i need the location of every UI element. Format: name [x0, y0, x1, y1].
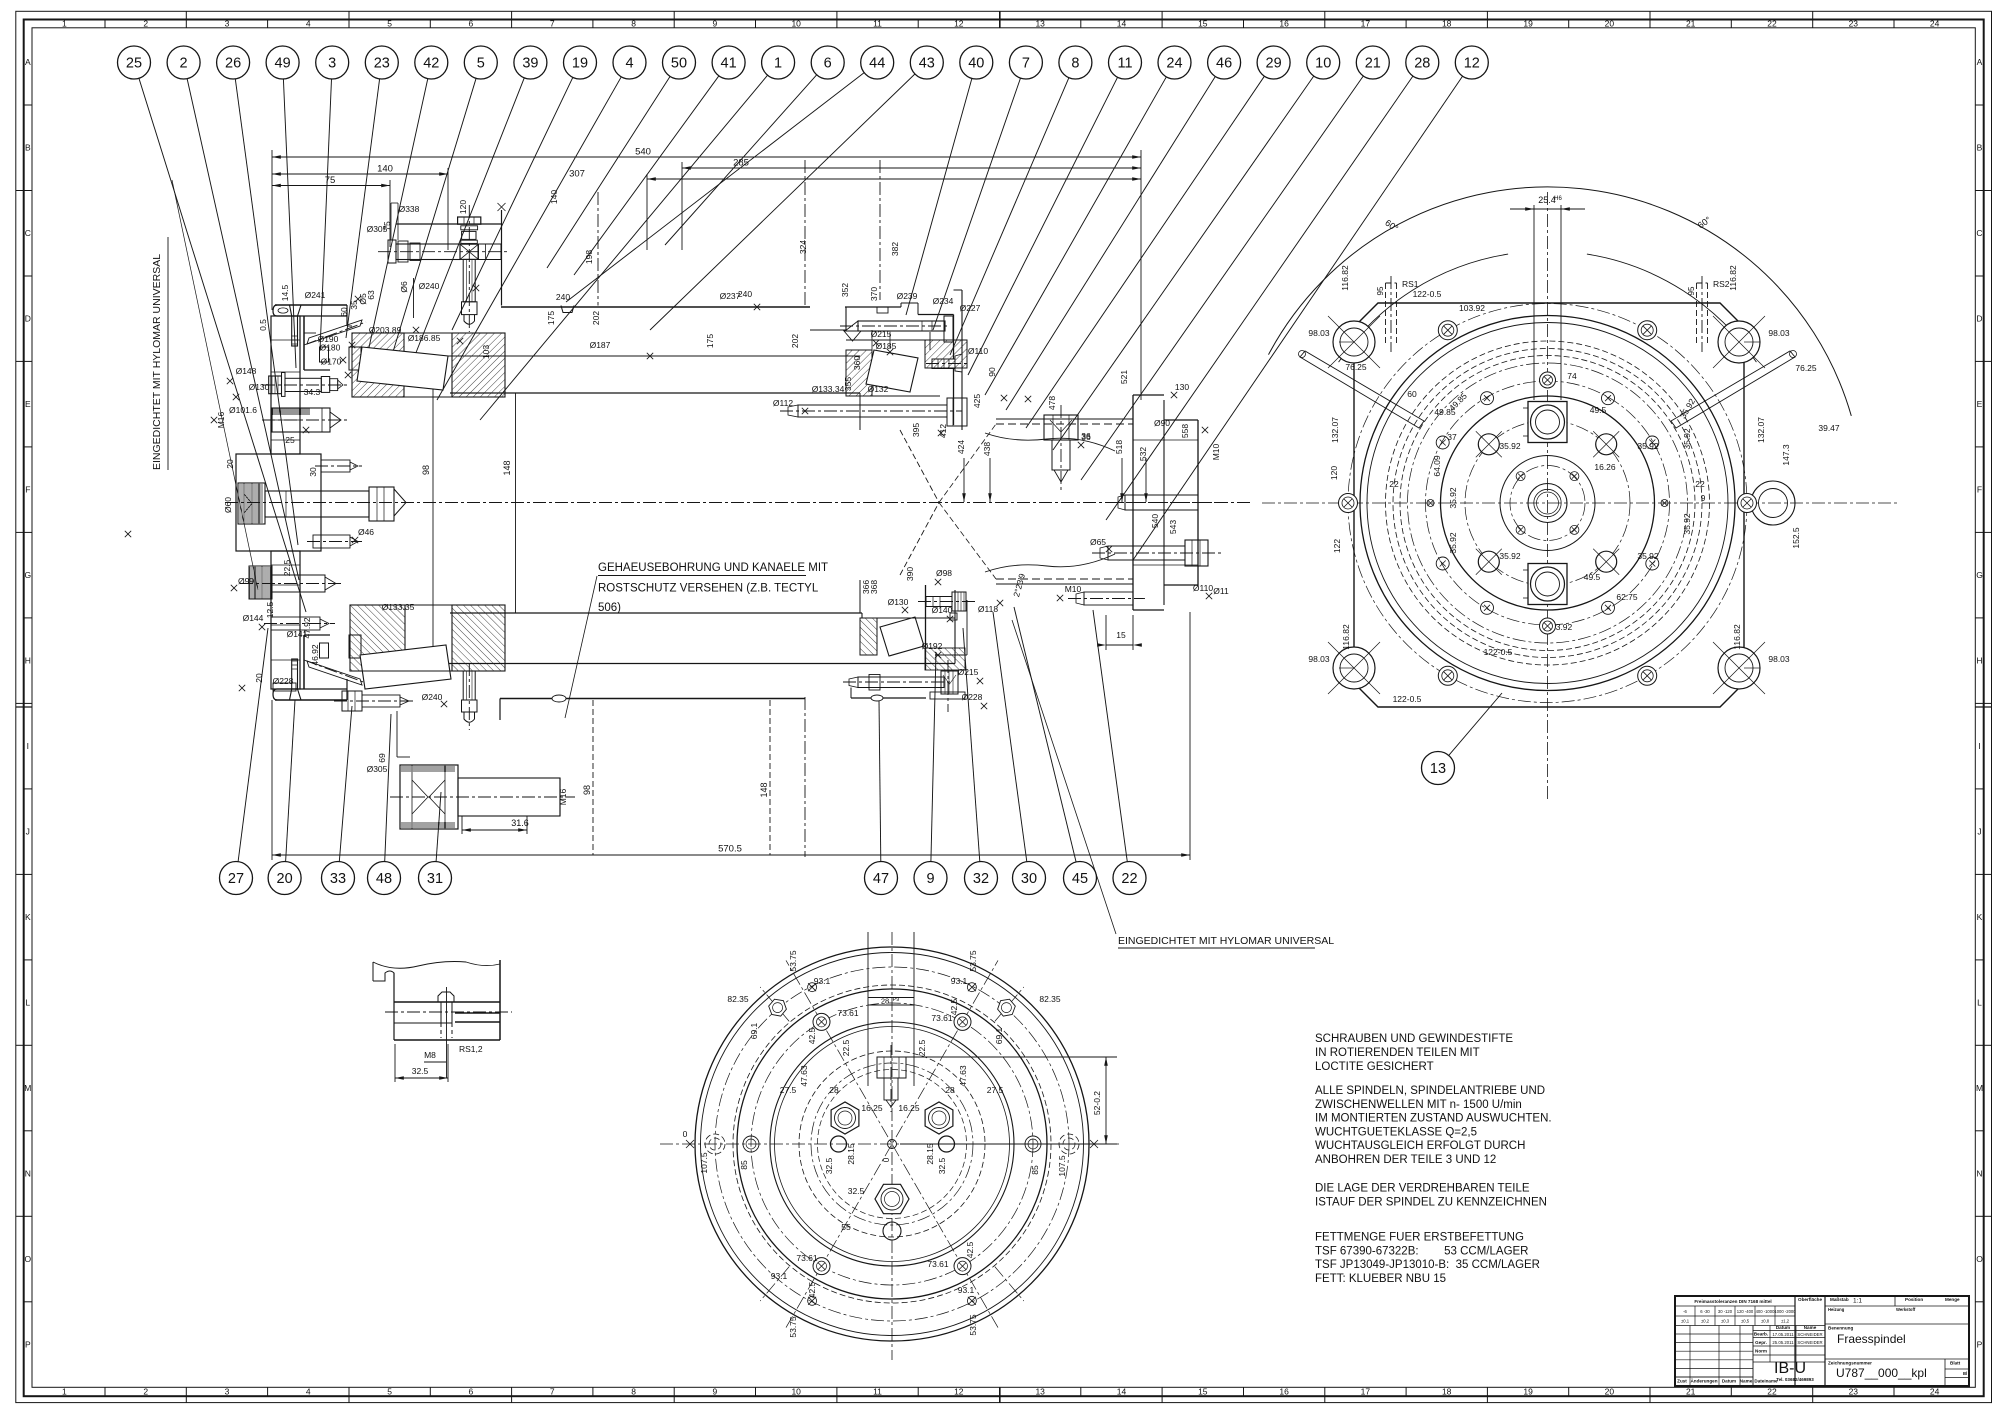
svg-text:RS1,2: RS1,2 [459, 1044, 483, 1054]
svg-text:93.1: 93.1 [951, 976, 968, 986]
svg-text:Ø240: Ø240 [422, 692, 443, 702]
svg-text:A: A [1977, 57, 1983, 67]
svg-text:98.03: 98.03 [1308, 654, 1330, 664]
svg-text:Ø99: Ø99 [238, 576, 254, 586]
svg-text:O: O [1976, 1254, 1983, 1264]
svg-text:±0,1: ±0,1 [1681, 1319, 1690, 1324]
svg-text:35.92: 35.92 [1637, 441, 1659, 451]
svg-text:37: 37 [1447, 432, 1457, 442]
svg-text:Blatt: Blatt [1950, 1361, 1961, 1366]
svg-text:307: 307 [569, 169, 585, 180]
svg-text:4: 4 [625, 56, 633, 72]
svg-text:EINGEDICHTET MIT HYLOMAR UNIVE: EINGEDICHTET MIT HYLOMAR UNIVERSAL [151, 254, 163, 470]
svg-text:Ø90: Ø90 [1154, 418, 1170, 428]
svg-text:Name: Name [1804, 1325, 1817, 1330]
svg-text:10: 10 [791, 1387, 801, 1397]
svg-text:140: 140 [377, 164, 393, 175]
svg-text:±0,3: ±0,3 [1721, 1319, 1730, 1324]
svg-text:12.5: 12.5 [265, 601, 275, 618]
svg-text:46.92: 46.92 [310, 644, 320, 666]
svg-text:ROSTSCHUTZ VERSEHEN (Z.B. TECT: ROSTSCHUTZ VERSEHEN (Z.B. TECTYL [598, 583, 819, 595]
svg-text:Tel. 03682/469893: Tel. 03682/469893 [1776, 1377, 1814, 1382]
svg-text:28.15: 28.15 [925, 1143, 935, 1165]
svg-text:76.25: 76.25 [1345, 362, 1367, 372]
svg-text:ALLE SPINDELN, SPINDELANTRIEBE: ALLE SPINDELN, SPINDELANTRIEBE UND [1315, 1085, 1545, 1097]
svg-text:Ø130: Ø130 [249, 382, 270, 392]
svg-text:355: 355 [843, 377, 853, 391]
svg-text:Ø118: Ø118 [978, 604, 998, 614]
svg-text:20: 20 [277, 871, 293, 887]
svg-text:69.1: 69.1 [994, 1027, 1004, 1044]
svg-text:540: 540 [1150, 514, 1160, 528]
svg-text:17: 17 [1361, 18, 1371, 28]
svg-text:122: 122 [1332, 539, 1342, 553]
svg-text:140: 140 [549, 190, 559, 204]
svg-text:35.92: 35.92 [1499, 551, 1521, 561]
svg-text:558: 558 [1180, 424, 1190, 438]
svg-text:22: 22 [1767, 18, 1777, 28]
svg-text:GEHAEUSEBOHRUNG UND KANAELE MI: GEHAEUSEBOHRUNG UND KANAELE MIT [598, 562, 828, 574]
svg-text:93.1: 93.1 [958, 1285, 975, 1295]
svg-text:120 -400: 120 -400 [1737, 1309, 1754, 1314]
svg-text:EINGEDICHTET MIT HYLOMAR UNIVE: EINGEDICHTET MIT HYLOMAR UNIVERSAL [1118, 935, 1334, 947]
svg-text:Ø305: Ø305 [367, 764, 388, 774]
svg-text:122-0.5: 122-0.5 [1413, 289, 1442, 299]
svg-text:Ø133.34: Ø133.34 [812, 384, 845, 394]
svg-text:27: 27 [228, 871, 244, 887]
svg-text:103: 103 [481, 345, 491, 359]
svg-text:5: 5 [477, 56, 485, 72]
svg-text:60: 60 [339, 307, 349, 317]
svg-text:53.75: 53.75 [788, 950, 798, 972]
svg-text:132.07: 132.07 [1330, 417, 1340, 443]
svg-text:Bl: Bl [1963, 1371, 1967, 1376]
svg-text:85: 85 [1030, 1165, 1040, 1175]
svg-text:76.25: 76.25 [1795, 363, 1817, 373]
svg-text:-6: -6 [1683, 1309, 1687, 1314]
svg-text:24: 24 [1930, 18, 1940, 28]
svg-text:40: 40 [968, 56, 984, 72]
svg-text:WUCHTGUETEKLASSE Q=2,5: WUCHTGUETEKLASSE Q=2,5 [1315, 1126, 1477, 1138]
svg-text:L: L [25, 998, 30, 1008]
svg-text:28: 28 [1414, 56, 1430, 72]
svg-text:16: 16 [1279, 18, 1289, 28]
svg-text:DIE LAGE DER VERDREHBAREN TEIL: DIE LAGE DER VERDREHBAREN TEILE [1315, 1183, 1530, 1195]
svg-text:45: 45 [1072, 871, 1088, 887]
svg-text:35.92: 35.92 [1448, 532, 1458, 554]
svg-text:Ø228: Ø228 [962, 692, 983, 702]
svg-text:ZWISCHENWELLEN MIT n- 1500 U/m: ZWISCHENWELLEN MIT n- 1500 U/min [1315, 1099, 1522, 1111]
svg-text:98: 98 [421, 465, 431, 475]
svg-text:46: 46 [1216, 56, 1232, 72]
svg-text:Ø110: Ø110 [1193, 583, 1213, 593]
svg-text:11: 11 [1117, 56, 1132, 72]
svg-text:Ø228: Ø228 [273, 676, 294, 686]
svg-text:49.5: 49.5 [1584, 572, 1601, 582]
svg-text:9: 9 [713, 1387, 718, 1397]
svg-text:Ø11: Ø11 [1213, 586, 1229, 596]
svg-text:73.61: 73.61 [796, 1253, 818, 1263]
svg-text:49: 49 [275, 56, 291, 72]
svg-text:Ø65: Ø65 [1090, 537, 1106, 547]
svg-text:42: 42 [423, 56, 439, 72]
svg-text:4: 4 [306, 1387, 311, 1397]
svg-text:Maßstab: Maßstab [1830, 1297, 1849, 1302]
svg-text:M: M [24, 1083, 31, 1093]
svg-text:23: 23 [374, 56, 390, 72]
svg-text:12: 12 [954, 18, 964, 28]
svg-text:240: 240 [556, 292, 570, 302]
svg-text:424: 424 [956, 440, 966, 454]
svg-text:3: 3 [225, 18, 230, 28]
svg-text:32.5: 32.5 [412, 1066, 429, 1076]
svg-text:18: 18 [1442, 18, 1452, 28]
svg-text:42.5: 42.5 [807, 1281, 817, 1298]
svg-text:69: 69 [377, 753, 387, 763]
svg-text:20: 20 [1605, 1387, 1615, 1397]
svg-text:24: 24 [1930, 1387, 1940, 1397]
svg-text:9: 9 [926, 871, 934, 887]
svg-text:N: N [1976, 1169, 1982, 1179]
svg-text:198: 198 [584, 250, 594, 264]
svg-text:Ø227: Ø227 [960, 303, 981, 313]
svg-text:63: 63 [366, 290, 376, 300]
svg-text:47.63: 47.63 [799, 1065, 809, 1087]
svg-text:C: C [1976, 228, 1982, 238]
svg-text:Ø112: Ø112 [773, 398, 793, 408]
svg-text:H6: H6 [1554, 196, 1562, 202]
svg-text:IM MONTIERTEN ZUSTAND AUSWUCHT: IM MONTIERTEN ZUSTAND AUSWUCHTEN. [1315, 1113, 1552, 1125]
svg-text:62.75: 62.75 [1616, 592, 1638, 602]
svg-text:22.5: 22.5 [841, 1039, 851, 1056]
svg-text:J: J [1977, 827, 1981, 837]
svg-text:E: E [25, 399, 31, 409]
svg-text:98.03: 98.03 [1768, 654, 1790, 664]
svg-text:WUCHTAUSGLEICH ERFOLGT DURCH: WUCHTAUSGLEICH ERFOLGT DURCH [1315, 1140, 1525, 1152]
svg-text:25: 25 [285, 435, 295, 445]
svg-text:M10: M10 [1065, 584, 1082, 594]
svg-text:4: 4 [306, 18, 311, 28]
svg-text:Ø234: Ø234 [933, 296, 954, 306]
svg-text:Ø6: Ø6 [399, 281, 409, 293]
svg-text:47: 47 [873, 871, 889, 887]
svg-text:122-0.5: 122-0.5 [1393, 694, 1422, 704]
svg-text:395: 395 [911, 423, 921, 437]
svg-text:7: 7 [550, 18, 555, 28]
svg-text:22.5: 22.5 [282, 559, 292, 576]
svg-text:34.3: 34.3 [304, 387, 321, 397]
svg-text:Ø130: Ø130 [888, 597, 909, 607]
svg-text:±0,2: ±0,2 [1701, 1319, 1710, 1324]
svg-text:N: N [25, 1169, 31, 1179]
svg-text:L: L [1977, 998, 1982, 1008]
svg-text:202: 202 [790, 334, 800, 348]
svg-text:27.5: 27.5 [987, 1085, 1004, 1095]
svg-text:IB-U: IB-U [1774, 1360, 1806, 1377]
svg-text:F: F [25, 485, 30, 495]
svg-text:G: G [24, 570, 31, 580]
svg-text:P: P [1977, 1340, 1983, 1350]
svg-text:50: 50 [671, 56, 687, 72]
svg-text:48: 48 [376, 871, 392, 887]
svg-text:9: 9 [713, 18, 718, 28]
svg-text:1: 1 [774, 56, 782, 72]
svg-text:39: 39 [522, 56, 538, 72]
svg-text:Werkstoff: Werkstoff [1896, 1307, 1916, 1312]
svg-text:Ø203.89: Ø203.89 [369, 325, 402, 335]
svg-text:506): 506) [598, 602, 621, 614]
svg-text:D: D [25, 314, 31, 324]
svg-text:74: 74 [1567, 371, 1577, 381]
svg-text:532: 532 [1138, 447, 1148, 461]
svg-text:22: 22 [1389, 479, 1399, 489]
svg-text:G: G [1976, 570, 1983, 580]
svg-text:TSF JP13049-JP13010-B: 35 CCM: TSF JP13049-JP13010-B: 35 CCM/LAGER [1315, 1259, 1540, 1271]
svg-text:120: 120 [1329, 466, 1339, 480]
svg-text:85: 85 [739, 1160, 749, 1170]
svg-text:6: 6 [824, 56, 832, 72]
svg-text:14: 14 [1117, 18, 1127, 28]
svg-text:53.75: 53.75 [788, 1316, 798, 1338]
svg-text:Oberfläche: Oberfläche [1798, 1297, 1822, 1302]
svg-text:42.5: 42.5 [949, 998, 959, 1015]
svg-text:14: 14 [1117, 1387, 1127, 1397]
svg-text:116.82: 116.82 [1732, 624, 1742, 650]
svg-text:25.05.2011: 25.05.2011 [1772, 1340, 1794, 1345]
svg-text:22: 22 [1121, 871, 1137, 887]
svg-text:Datum: Datum [1722, 1379, 1736, 1384]
svg-text:21: 21 [1365, 56, 1381, 72]
svg-text:202: 202 [591, 311, 601, 325]
svg-text:41: 41 [721, 56, 737, 72]
svg-text:35.92: 35.92 [1637, 551, 1659, 561]
svg-text:SCHNEIDER: SCHNEIDER [1797, 1332, 1822, 1337]
svg-text:130: 130 [1175, 382, 1189, 392]
svg-text:1000 -2000: 1000 -2000 [1774, 1309, 1796, 1314]
svg-text:Norm: Norm [1755, 1349, 1767, 1354]
svg-text:52-0.2: 52-0.2 [1092, 1091, 1102, 1115]
svg-text:FETT: KLUEBER NBU 15: FETT: KLUEBER NBU 15 [1315, 1273, 1446, 1285]
svg-text:Ø239: Ø239 [897, 291, 918, 301]
svg-text:35.92: 35.92 [1682, 428, 1692, 450]
svg-text:Ø338: Ø338 [399, 204, 420, 214]
svg-text:39.47: 39.47 [1818, 423, 1840, 433]
svg-text:Ø148: Ø148 [236, 366, 257, 376]
svg-text:Gepr.: Gepr. [1755, 1340, 1767, 1345]
svg-text:93.1: 93.1 [814, 976, 831, 986]
svg-text:Ø240: Ø240 [419, 281, 440, 291]
svg-text:98.03: 98.03 [1768, 328, 1790, 338]
svg-text:Ø46: Ø46 [358, 527, 374, 537]
svg-text:11: 11 [873, 18, 882, 28]
svg-text:1: 1 [62, 1387, 67, 1397]
svg-text:Ø133.35: Ø133.35 [382, 602, 415, 612]
svg-text:0.5: 0.5 [258, 319, 268, 331]
svg-text:98.03: 98.03 [1308, 328, 1330, 338]
svg-text:32.5: 32.5 [937, 1157, 947, 1174]
svg-text:285: 285 [733, 158, 749, 169]
svg-text:Ø98: Ø98 [936, 568, 952, 578]
svg-text:32: 32 [973, 871, 989, 887]
svg-text:20: 20 [1605, 18, 1615, 28]
svg-text:28.15: 28.15 [846, 1143, 856, 1165]
svg-text:M16: M16 [558, 788, 568, 805]
svg-text:28: 28 [881, 997, 889, 1006]
svg-text:32.5: 32.5 [824, 1157, 834, 1174]
svg-text:10: 10 [1315, 56, 1331, 72]
svg-text:Ø144: Ø144 [243, 613, 264, 623]
svg-text:M8: M8 [424, 1050, 436, 1060]
svg-text:6: 6 [469, 1387, 474, 1397]
svg-text:O: O [24, 1254, 31, 1264]
svg-text:Änderungen: Änderungen [1690, 1378, 1717, 1384]
svg-text:H: H [1976, 656, 1982, 666]
svg-text:Ø141: Ø141 [287, 629, 308, 639]
svg-text:73.61: 73.61 [837, 1008, 859, 1018]
svg-text:107.5: 107.5 [1057, 1155, 1067, 1177]
svg-text:28: 28 [829, 1085, 839, 1095]
svg-text:35.92: 35.92 [1682, 513, 1692, 535]
svg-text:19: 19 [1523, 1387, 1533, 1397]
svg-text:SCHRAUBEN UND GEWINDESTIFTE: SCHRAUBEN UND GEWINDESTIFTE [1315, 1033, 1513, 1045]
svg-text:390: 390 [905, 567, 915, 581]
svg-text:22: 22 [1767, 1387, 1777, 1397]
svg-text:Ø241: Ø241 [305, 290, 326, 300]
svg-text:12: 12 [954, 1387, 964, 1397]
svg-text:Ø170: Ø170 [321, 357, 342, 367]
svg-text:95: 95 [1687, 286, 1696, 295]
svg-text:Freimasstoleranzen DIN 7168 mi: Freimasstoleranzen DIN 7168 mittel [1694, 1299, 1771, 1304]
svg-text:0: 0 [881, 1157, 891, 1162]
svg-text:175: 175 [705, 334, 715, 348]
svg-text:32.5: 32.5 [848, 1186, 865, 1196]
svg-text:23: 23 [1849, 18, 1859, 28]
svg-text:Ø180: Ø180 [320, 343, 341, 353]
svg-text:240: 240 [738, 289, 752, 299]
svg-text:152.5: 152.5 [1791, 527, 1801, 549]
svg-text:±0,5: ±0,5 [1741, 1319, 1750, 1324]
svg-text:60: 60 [1407, 389, 1417, 399]
svg-text:5: 5 [387, 1387, 392, 1397]
svg-text:A: A [25, 57, 31, 67]
svg-text:ANBOHREN DER TEILE 3 UND 12: ANBOHREN DER TEILE 3 UND 12 [1315, 1154, 1496, 1166]
svg-text:3: 3 [328, 56, 336, 72]
svg-text:20: 20 [254, 673, 264, 683]
svg-text:438: 438 [982, 442, 992, 456]
svg-text:1:1: 1:1 [1853, 1298, 1862, 1305]
svg-text:12: 12 [1464, 56, 1480, 72]
svg-text:15: 15 [1198, 18, 1208, 28]
svg-text:49.5: 49.5 [1590, 405, 1607, 415]
svg-text:543: 543 [1168, 520, 1178, 534]
svg-text:24: 24 [1166, 56, 1182, 72]
svg-text:42.5: 42.5 [965, 1241, 975, 1258]
svg-text:148: 148 [759, 782, 769, 797]
svg-text:Fraesspindel: Fraesspindel [1837, 1332, 1906, 1346]
svg-text:20: 20 [225, 459, 235, 469]
svg-text:55: 55 [841, 1222, 851, 1232]
svg-text:C: C [25, 228, 31, 238]
svg-text:P: P [25, 1340, 31, 1350]
svg-text:13: 13 [1035, 18, 1045, 28]
svg-text:26: 26 [225, 56, 241, 72]
svg-text:Heizung: Heizung [1828, 1307, 1845, 1312]
svg-text:13: 13 [1035, 1387, 1045, 1397]
svg-text:6: 6 [469, 18, 474, 28]
svg-text:30 -120: 30 -120 [1718, 1309, 1733, 1314]
svg-text:B: B [1977, 143, 1983, 153]
svg-text:Position: Position [1905, 1297, 1923, 1302]
svg-text:22: 22 [1695, 479, 1705, 489]
svg-text:103.92: 103.92 [1459, 303, 1485, 313]
svg-text:43: 43 [919, 56, 935, 72]
svg-text:521: 521 [1119, 370, 1129, 384]
svg-text:21: 21 [1686, 1387, 1696, 1397]
svg-text:D: D [1976, 314, 1982, 324]
svg-text:K: K [25, 912, 31, 922]
svg-text:73.61: 73.61 [927, 1259, 949, 1269]
svg-text:M16: M16 [216, 411, 226, 428]
svg-text:Zust: Zust [1677, 1379, 1687, 1384]
svg-text:±1,2: ±1,2 [1781, 1319, 1790, 1324]
svg-text:16: 16 [1279, 1387, 1289, 1397]
svg-text:Ø215: Ø215 [871, 329, 892, 339]
svg-text:7: 7 [550, 1387, 555, 1397]
svg-text:U787__000__kpl: U787__000__kpl [1836, 1366, 1927, 1380]
svg-text:400 -1000: 400 -1000 [1756, 1309, 1776, 1314]
svg-text:82.35: 82.35 [727, 994, 749, 1004]
svg-text:16.25: 16.25 [898, 1103, 920, 1113]
svg-text:540: 540 [635, 147, 651, 158]
svg-text:F: F [1977, 485, 1982, 495]
svg-text:TSF 67390-67322B: 53 CC: TSF 67390-67322B: 53 CCM/LAGER [1315, 1245, 1529, 1257]
svg-text:15: 15 [1198, 1387, 1208, 1397]
svg-text:16.26: 16.26 [1594, 462, 1616, 472]
svg-text:22.5: 22.5 [917, 1039, 927, 1056]
svg-text:360: 360 [852, 356, 862, 370]
svg-text:13: 13 [1430, 761, 1446, 777]
svg-text:30: 30 [308, 467, 318, 477]
svg-text:352: 352 [840, 283, 850, 297]
svg-text:75: 75 [382, 221, 392, 231]
svg-text:Ø140: Ø140 [932, 605, 953, 615]
svg-text:116.82: 116.82 [1341, 624, 1351, 650]
svg-text:8: 8 [631, 1387, 636, 1397]
svg-text:175: 175 [546, 311, 556, 325]
svg-text:47.63: 47.63 [958, 1065, 968, 1087]
svg-text:3.92: 3.92 [1556, 622, 1573, 632]
svg-text:28: 28 [945, 1085, 955, 1095]
svg-text:M10: M10 [1211, 443, 1221, 460]
svg-text:Ø101.6: Ø101.6 [229, 405, 257, 415]
svg-text:27.5: 27.5 [780, 1085, 797, 1095]
svg-text:E: E [1977, 399, 1983, 409]
svg-text:Datum: Datum [1776, 1325, 1790, 1330]
svg-text:Ø187: Ø187 [590, 340, 611, 350]
svg-text:8: 8 [631, 18, 636, 28]
svg-text:69.1: 69.1 [749, 1022, 759, 1039]
svg-text:75: 75 [325, 175, 336, 186]
svg-text:116.82: 116.82 [1340, 265, 1350, 291]
svg-text:7: 7 [1022, 56, 1030, 72]
svg-text:17.05.2011: 17.05.2011 [1772, 1332, 1794, 1337]
svg-text:53.75: 53.75 [968, 950, 978, 972]
svg-text:107.5: 107.5 [699, 1152, 709, 1174]
svg-text:31: 31 [427, 871, 443, 887]
svg-text:Name: Name [1740, 1379, 1753, 1384]
svg-text:44: 44 [869, 56, 885, 72]
svg-text:J: J [26, 827, 30, 837]
